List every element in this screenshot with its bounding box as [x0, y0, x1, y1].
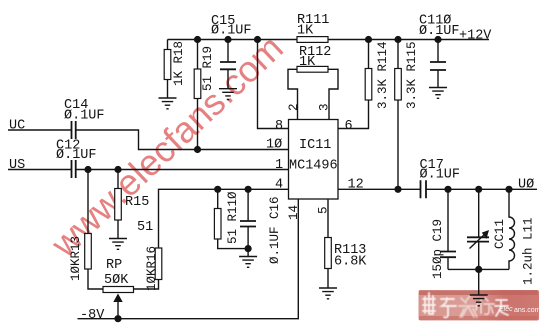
- svg-text:51 R11Ø: 51 R11Ø: [226, 191, 240, 244]
- wire pin 4 net: [159, 189, 289, 248]
- op IC11 MC1496 box: [289, 120, 339, 200]
- node rail-R19: [194, 36, 201, 43]
- variable capacitor CC11: [467, 237, 489, 241]
- resistor R15 51: [115, 189, 122, 221]
- capacitor C14 0.1UF: [72, 121, 76, 139]
- resistor R110 51: [214, 209, 221, 240]
- node pin4-C16: [245, 186, 252, 193]
- svg-text:Ø.1UF C16: Ø.1UF C16: [268, 196, 282, 264]
- wire -8V rail / pin 14: [78, 199, 299, 319]
- ground under CC11 tank: [470, 295, 488, 306]
- svg-text:+12V: +12V: [459, 29, 492, 44]
- svg-text:5: 5: [317, 206, 331, 214]
- ground under R15: [109, 239, 127, 250]
- wire RP wiper from -8V: [117, 301, 119, 319]
- svg-text:1K: 1K: [297, 24, 314, 39]
- svg-text:UC: UC: [9, 119, 25, 134]
- node pin12-R115: [394, 186, 401, 193]
- potentiometer RP 50K body: [103, 287, 134, 293]
- svg-text:R15: R15: [125, 195, 149, 210]
- svg-text:1ØKR13: 1ØKR13: [69, 236, 83, 281]
- svg-text:6: 6: [345, 119, 353, 134]
- resistor R13 10K: [85, 234, 92, 270]
- node -8V wiper: [114, 315, 121, 322]
- wire R18 drop: [167, 40, 169, 99]
- svg-text:Ø.1UF: Ø.1UF: [419, 24, 460, 39]
- ground under R18: [159, 98, 177, 109]
- svg-text:1: 1: [275, 158, 283, 173]
- svg-text:IC11: IC11: [299, 138, 331, 153]
- node rail-C15: [224, 36, 231, 43]
- node tank-gnd: [475, 266, 482, 273]
- svg-text:Ø.1UF: Ø.1UF: [56, 148, 97, 163]
- svg-text:Ø.1UF: Ø.1UF: [420, 168, 461, 183]
- svg-text:3: 3: [318, 103, 332, 111]
- wire C110 branch: [437, 40, 439, 88]
- ground under R113: [319, 288, 337, 299]
- node pin10-R19: [194, 146, 201, 153]
- wire C16 branch: [247, 189, 249, 256]
- node out-C19: [444, 186, 451, 193]
- svg-text:51: 51: [137, 220, 153, 235]
- svg-text:1ØKR16: 1ØKR16: [145, 246, 159, 291]
- svg-text:12: 12: [348, 178, 364, 193]
- node out-CC11: [475, 186, 482, 193]
- resistor R114 3.3K: [365, 69, 372, 101]
- svg-text:1.2uh L11: 1.2uh L11: [522, 217, 536, 285]
- svg-text:Elec: Elec: [499, 306, 513, 313]
- wire pin 8 net: [258, 40, 289, 129]
- resistor R16 10K: [155, 248, 162, 280]
- ground under C15: [219, 89, 237, 100]
- wire R19 branch: [197, 40, 199, 150]
- svg-text:1K R18: 1K R18: [172, 41, 186, 86]
- resistor R111 1K: [297, 37, 328, 43]
- wire US input to pin 1: [8, 169, 289, 171]
- svg-text:15Øp C19: 15Øp C19: [431, 219, 445, 279]
- svg-text:8: 8: [275, 119, 283, 134]
- node pin4-R110: [214, 186, 221, 193]
- wire pin 12 output net: [338, 188, 537, 190]
- node rail-R114: [365, 36, 372, 43]
- resistor R18 1K: [164, 50, 171, 80]
- ground under C110: [429, 88, 447, 99]
- wire R110 branch: [218, 189, 248, 248]
- svg-text:3.3K R114: 3.3K R114: [376, 41, 390, 109]
- capacitor C15 0.1UF: [220, 62, 236, 69]
- node R110-C16 gnd: [245, 245, 252, 252]
- node US-R15: [114, 166, 121, 173]
- wire R13 branch: [88, 170, 103, 290]
- svg-text:CC11: CC11: [493, 219, 507, 249]
- svg-text:-8V: -8V: [80, 308, 105, 323]
- svg-text:UØ: UØ: [518, 178, 534, 193]
- wire +12V top rail: [168, 39, 490, 41]
- inductor L11 1.2uh: [509, 189, 515, 269]
- svg-text:Ø.1UF: Ø.1UF: [211, 24, 252, 39]
- wire R16 bottom to RP: [134, 280, 159, 290]
- wire tank bottom: [448, 268, 509, 270]
- svg-text:ans.com: ans.com: [514, 307, 541, 314]
- wire CC11 branch: [478, 189, 480, 295]
- svg-text:5ØK: 5ØK: [104, 273, 129, 288]
- node rail-R115: [394, 36, 401, 43]
- wire UC input to pin 10: [8, 130, 289, 150]
- svg-text:3.3K R115: 3.3K R115: [405, 41, 419, 109]
- svg-text:4: 4: [275, 178, 283, 193]
- wire R15 branch: [117, 170, 119, 239]
- CC11 arrow head: [482, 230, 489, 239]
- svg-text:51 R19: 51 R19: [201, 46, 215, 91]
- svg-text:1Ø: 1Ø: [266, 138, 282, 153]
- ground under C16: [239, 257, 257, 268]
- svg-text:6.8K: 6.8K: [334, 255, 367, 270]
- wire R114 branch / pin 6 net: [338, 40, 369, 129]
- svg-text:US: US: [9, 158, 25, 173]
- wire C19 branch: [447, 189, 449, 269]
- wire R115 branch: [397, 40, 399, 190]
- capacitor C16 0.1UF: [240, 221, 256, 227]
- resistor R112 1K body: [297, 66, 328, 72]
- wire C15 branch: [227, 40, 229, 90]
- node rail-R111: [254, 36, 261, 43]
- svg-text:Ø.1UF: Ø.1UF: [64, 109, 105, 124]
- svg-text:MC1496: MC1496: [289, 159, 338, 174]
- capacitor C110 0.1UF: [430, 62, 446, 70]
- svg-text:1K: 1K: [299, 55, 316, 70]
- resistor R113 6.8K: [325, 238, 332, 269]
- svg-text:RP: RP: [106, 258, 122, 273]
- wire pin 5 to R113: [327, 199, 329, 288]
- RP wiper arrow head: [113, 294, 122, 303]
- svg-text:2: 2: [287, 103, 301, 111]
- node out-L11: [505, 186, 512, 193]
- capacitor C17 0.1UF: [421, 180, 427, 198]
- node US-R13: [84, 166, 91, 173]
- resistor R112 1K leads: [288, 69, 338, 119]
- resistor R115 3.3K: [395, 69, 402, 101]
- resistor R19 51: [194, 69, 201, 99]
- capacitor C12 0.1UF: [72, 160, 76, 178]
- node rail-C110: [434, 36, 441, 43]
- svg-text:14: 14: [287, 205, 301, 220]
- capacitor C19 150p: [440, 252, 456, 258]
